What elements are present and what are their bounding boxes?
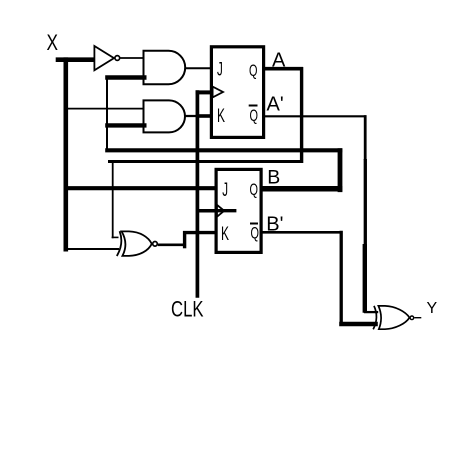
wire CLK vertical xyxy=(196,90,200,298)
wire A vertical xyxy=(300,67,303,163)
svg-text:B: B xyxy=(267,167,280,189)
wire FF1 K input thick segment xyxy=(196,114,211,118)
wire X vertical trunk xyxy=(64,57,69,251)
svg-text:X: X xyxy=(47,30,59,55)
wire A feedback row (y=161) xyxy=(108,160,303,163)
XNOR2 back curve xyxy=(373,306,376,329)
wire B vertical up to bus xyxy=(338,148,343,192)
wire XNOR1 output xyxy=(158,244,186,247)
svg-text:K: K xyxy=(217,105,225,127)
AND gate G3 (K of FF1) xyxy=(144,100,185,132)
wire Y output xyxy=(414,317,421,319)
wire XNOR1 output riser tick xyxy=(183,231,186,248)
wire B feedback bus horizontal xyxy=(105,148,342,152)
FF1 Qbar overline xyxy=(249,105,258,107)
svg-text:J: J xyxy=(217,58,223,80)
AND gate G2 (J of FF1) xyxy=(144,51,186,84)
XNOR1 body xyxy=(122,231,152,256)
wire inverter output to AND1 xyxy=(120,57,143,59)
wire foot into XNOR1 upper input xyxy=(112,236,119,238)
wire B' stub into XNOR2 lower input xyxy=(339,322,378,327)
svg-text:Q: Q xyxy=(250,106,259,125)
wire A output row xyxy=(263,67,303,71)
wire B' row xyxy=(261,231,343,234)
wire X input horizontal xyxy=(56,57,96,62)
wire X to XNOR1 lower input xyxy=(64,248,119,250)
JK flip-flop FF1 (A) box xyxy=(211,47,263,138)
wire stub to AND1 lower input xyxy=(105,75,146,79)
wire A' row xyxy=(263,115,366,117)
wire A' vertical lower segment xyxy=(363,244,367,313)
XNOR1 bubble xyxy=(153,242,158,247)
svg-text:A': A' xyxy=(267,94,284,116)
wire AND1 output to FF1 J xyxy=(186,67,212,69)
XNOR1 back curve xyxy=(117,231,122,256)
FF2 clock triangle xyxy=(217,205,224,217)
svg-text:Q: Q xyxy=(251,224,260,243)
wire to FF2 K input xyxy=(183,231,216,234)
XNOR2 body xyxy=(378,306,409,329)
svg-text:Y: Y xyxy=(427,300,438,317)
inverter G1 bubble xyxy=(115,56,120,61)
wire CLK to FF2 clock input xyxy=(196,209,236,213)
FF2 Qbar overline xyxy=(250,223,258,225)
wire A' vertical upper segment xyxy=(364,115,367,160)
wire A feedback vertical to XNOR1 upper input xyxy=(112,161,114,239)
svg-text:K: K xyxy=(221,223,229,245)
wire CLK to FF1 clock input xyxy=(196,90,211,94)
wire B feedback vertical (x=107) xyxy=(106,77,108,151)
wire stub to AND2 lower input xyxy=(105,123,146,127)
FF2 clock line through box xyxy=(216,209,237,212)
svg-text:Q: Q xyxy=(250,180,259,199)
FF1 clock triangle xyxy=(213,87,223,98)
svg-text:J: J xyxy=(222,179,228,201)
wire X to AND2 upper input xyxy=(64,108,144,110)
inverter G1 triangle xyxy=(94,46,114,70)
wire B' vertical xyxy=(340,231,343,326)
wire A' vertical middle segment xyxy=(364,159,367,245)
XNOR2 bubble xyxy=(410,316,414,320)
wire X to FF2 J input row xyxy=(65,186,216,190)
svg-text:CLK: CLK xyxy=(171,296,204,321)
JK flip-flop FF2 (B) box xyxy=(216,169,261,252)
wire B output row xyxy=(260,186,342,192)
svg-text:Q: Q xyxy=(249,61,258,80)
wire AND2 output to FF1 K xyxy=(185,115,211,117)
wire A' stub into XNOR2 upper input xyxy=(364,311,378,313)
